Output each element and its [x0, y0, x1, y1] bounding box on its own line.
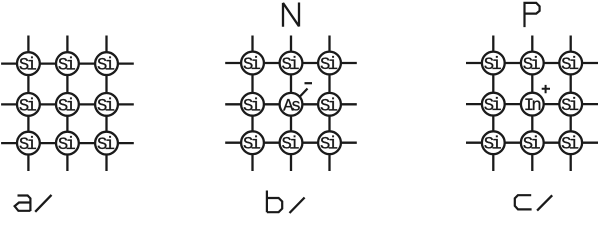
Si atom circle: lattice b row 1 col 3: [318, 52, 341, 75]
caption slash after b: [290, 198, 305, 214]
wire: lattice b horizontal bond row 1: [225, 62, 357, 64]
svg-text:In: In: [524, 97, 541, 116]
caption letter a: [15, 196, 31, 212]
wire: lattice b horizontal bond row 2: [225, 103, 357, 105]
svg-text:As: As: [283, 97, 300, 116]
label P (p-type) above lattice c: [525, 3, 540, 27]
Si atom circle: lattice b row 2 col 3: [318, 93, 341, 116]
svg-text:Si: Si: [484, 97, 502, 116]
svg-text:Si: Si: [243, 56, 261, 75]
svg-text:Si: Si: [320, 56, 338, 75]
wire: lattice c horizontal bond row 3: [466, 142, 598, 144]
svg-text:Si: Si: [97, 136, 115, 155]
svg-text:Si: Si: [58, 97, 76, 116]
Si atom circle: lattice b row 1 col 2: [280, 52, 303, 75]
Si atom circle: lattice c row 3 col 2: [521, 131, 544, 154]
svg-text:Si: Si: [243, 97, 261, 116]
wire: lattice a horizontal bond row 1: [1, 62, 134, 64]
svg-text:Si: Si: [561, 136, 579, 155]
svg-text:Si: Si: [97, 97, 115, 116]
Si atom circle: lattice b row 3 col 1: [241, 131, 264, 154]
svg-text:Si: Si: [320, 136, 338, 155]
svg-text:Si: Si: [19, 57, 37, 76]
wire: lattice a vertical bond column 1: [27, 36, 29, 172]
Si atom circle: lattice b row 3 col 3: [318, 131, 341, 154]
Si atom circle: lattice c row 3 col 1: [482, 131, 505, 154]
caption slash after c: [537, 195, 552, 210]
acceptor atom In circle: [521, 93, 544, 116]
wire: lattice c horizontal bond row 2: [466, 103, 598, 105]
Si atom circle: lattice a row 1 col 1: [17, 52, 40, 75]
Si atom circle: lattice b row 2 col 1: [241, 93, 264, 116]
Si atom circle: lattice b row 3 col 2: [280, 131, 303, 154]
svg-text:Si: Si: [561, 56, 579, 75]
Si atom circle: lattice a row 1 col 3: [95, 52, 118, 75]
Si atom circle: lattice c row 2 col 3: [559, 93, 582, 116]
svg-text:Si: Si: [58, 57, 76, 76]
wire: lattice c horizontal bond row 1: [466, 62, 598, 64]
donor atom As circle: [280, 93, 303, 116]
wire: lattice c vertical bond column 3: [570, 36, 572, 172]
svg-text:Si: Si: [281, 136, 299, 155]
Si atom circle: lattice a row 3 col 2: [56, 132, 79, 155]
wire: lattice b vertical bond column 3: [328, 36, 330, 172]
plus charge label at In atom: [542, 85, 550, 93]
svg-text:Si: Si: [19, 136, 37, 155]
wire: lattice b horizontal bond row 3: [225, 142, 357, 144]
wire: lattice a vertical bond column 2: [66, 36, 68, 172]
Si atom circle: lattice a row 1 col 2: [56, 52, 79, 75]
Si atom circle: lattice c row 1 col 1: [482, 52, 505, 75]
svg-text:Si: Si: [97, 57, 115, 76]
Si atom circle: lattice b row 1 col 1: [241, 52, 264, 75]
caption slash after a: [35, 195, 51, 212]
free electron bond (diagonal stub) at As atom: [299, 89, 308, 98]
Si atom circle: lattice a row 3 col 1: [17, 132, 40, 155]
minus charge label at As atom: [305, 82, 313, 84]
wire: lattice b vertical bond column 2: [290, 36, 292, 172]
svg-text:Si: Si: [523, 56, 541, 75]
caption letter c: [515, 195, 532, 209]
Si atom circle: lattice c row 2 col 1: [482, 93, 505, 116]
Si atom circle: lattice c row 1 col 3: [559, 52, 582, 75]
wire: lattice a horizontal bond row 3: [1, 142, 134, 144]
svg-text:Si: Si: [523, 136, 541, 155]
Si atom circle: lattice c row 1 col 2: [521, 52, 544, 75]
svg-text:Si: Si: [19, 97, 37, 116]
svg-text:Si: Si: [281, 56, 299, 75]
wire: lattice a vertical bond column 3: [105, 36, 107, 172]
svg-text:Si: Si: [484, 56, 502, 75]
wire: lattice b vertical bond column 1: [251, 36, 253, 172]
wire: lattice c vertical bond column 2: [531, 36, 533, 172]
Si atom circle: lattice c row 3 col 3: [559, 131, 582, 154]
caption letter b: [267, 191, 282, 213]
label N (n-type) above lattice b: [283, 3, 299, 27]
wire: lattice a horizontal bond row 2: [1, 103, 134, 105]
Si atom circle: lattice a row 2 col 2: [56, 93, 79, 116]
svg-text:Si: Si: [484, 136, 502, 155]
svg-text:Si: Si: [320, 97, 338, 116]
svg-text:Si: Si: [561, 97, 579, 116]
svg-text:Si: Si: [243, 136, 261, 155]
Si atom circle: lattice a row 2 col 3: [95, 93, 118, 116]
wire: lattice c vertical bond column 1: [492, 36, 494, 172]
svg-text:Si: Si: [58, 136, 76, 155]
Si atom circle: lattice a row 3 col 3: [95, 132, 118, 155]
Si atom circle: lattice a row 2 col 1: [17, 93, 40, 116]
